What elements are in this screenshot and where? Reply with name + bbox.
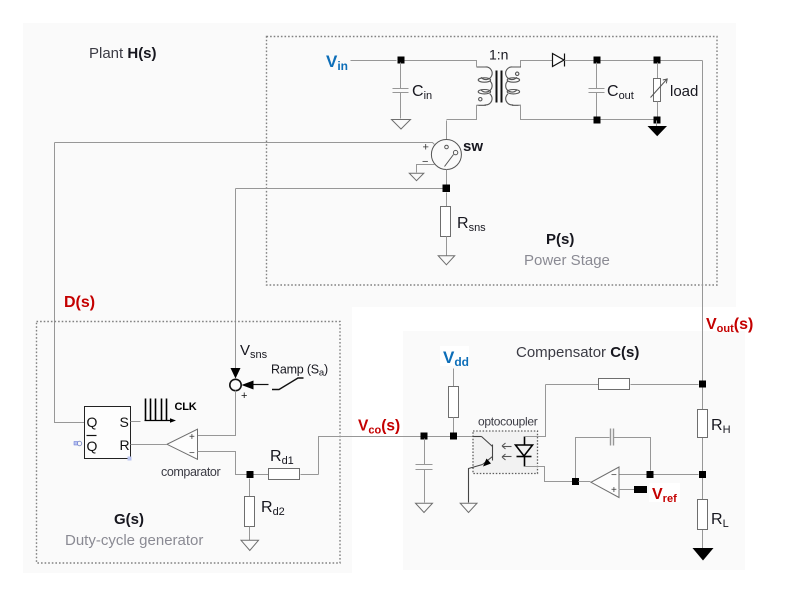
node divider mid junction bbox=[699, 471, 706, 478]
wire divider node to op-amp minus bbox=[619, 474, 699, 476]
wire output top rail to Vout line bbox=[702, 61, 704, 285]
handle artifact bottom right of flip-flop bbox=[128, 457, 132, 461]
ground under load (filled) bbox=[648, 121, 668, 137]
wire primary bottom lead bbox=[447, 106, 479, 120]
node load top bbox=[654, 57, 661, 64]
wire op-amp output to node bbox=[579, 481, 591, 483]
label background Vdd bbox=[440, 346, 469, 366]
transformer secondary winding bbox=[506, 67, 521, 105]
op-amp U3 bbox=[591, 467, 619, 498]
resistor R_d1 bbox=[254, 469, 319, 480]
svg-text:+: + bbox=[423, 142, 429, 154]
wire Vsns tap to left bbox=[236, 188, 443, 190]
svg-text:Duty-cycle generator: Duty-cycle generator bbox=[65, 532, 203, 549]
arrow into summing node bbox=[231, 368, 241, 379]
svg-text:S: S bbox=[120, 414, 129, 430]
diode D1 bbox=[553, 54, 565, 67]
wire S input bbox=[131, 421, 141, 423]
wire summing node to comparator plus bbox=[198, 391, 236, 436]
node Vco cap junction bbox=[421, 433, 428, 440]
resistor R_H bbox=[698, 388, 708, 471]
label background Vref bbox=[649, 483, 680, 502]
bubble on Qbar bbox=[77, 441, 81, 445]
LED of optocoupler bbox=[516, 437, 533, 467]
ground under R_L (filled) bbox=[693, 548, 714, 561]
wire Rd1 up to Vco rail bbox=[319, 437, 473, 475]
phototransistor of optocoupler bbox=[469, 437, 493, 503]
capacitor at Vco bbox=[416, 439, 433, 503]
svg-text:optocoupler: optocoupler bbox=[478, 415, 538, 429]
transformer primary winding bbox=[477, 67, 493, 105]
compensator container background bbox=[403, 331, 745, 570]
node sense junction bbox=[443, 185, 451, 193]
wire node to transformer bbox=[405, 61, 477, 67]
summing node circle bbox=[230, 379, 241, 390]
svg-text:P(s): P(s) bbox=[546, 231, 574, 248]
feedback capacitor bbox=[576, 429, 651, 481]
resistor R_sns bbox=[441, 193, 451, 256]
light arrows of optocoupler bbox=[502, 443, 512, 460]
load arrow bbox=[651, 79, 668, 98]
optocoupler box bbox=[473, 431, 538, 474]
svg-text:CLK: CLK bbox=[175, 401, 197, 413]
wire Q output up the left side bbox=[55, 143, 85, 423]
node Cout top bbox=[594, 57, 601, 64]
svg-text:Q: Q bbox=[87, 414, 98, 430]
wire op-amp plus to Vref bbox=[619, 489, 635, 491]
svg-text:load: load bbox=[670, 83, 698, 100]
node Vout feedback junction bbox=[699, 381, 706, 388]
clock pulse train CLK bbox=[146, 399, 167, 421]
wire Vout vertical bbox=[702, 285, 704, 549]
comparator U2 bbox=[167, 429, 198, 459]
clock baseline with arrow bbox=[145, 418, 177, 423]
capacitor C_in bbox=[393, 63, 409, 119]
svg-text:Q: Q bbox=[87, 438, 98, 454]
svg-text:+: + bbox=[189, 432, 195, 443]
svg-text:+: + bbox=[241, 390, 247, 402]
svg-text:sw: sw bbox=[463, 138, 483, 155]
power stage dotted box P(s) bbox=[267, 37, 718, 286]
svg-text:−: − bbox=[189, 448, 195, 459]
svg-text:Power Stage: Power Stage bbox=[524, 252, 610, 269]
node Cout bottom bbox=[594, 117, 601, 124]
handle artifact left of bubble bbox=[74, 442, 78, 446]
svg-text:R: R bbox=[120, 437, 130, 453]
wire comparator output to R input bbox=[131, 444, 167, 446]
wire secondary top to diode bbox=[521, 61, 553, 67]
plant container background left column bbox=[23, 307, 352, 573]
phototransistor emitter arrow bbox=[483, 459, 491, 467]
ground under optocoupler bbox=[460, 503, 477, 512]
ground under R_d2 bbox=[241, 540, 259, 550]
transformer core bbox=[496, 71, 498, 103]
wire primary bottom to SW bbox=[446, 121, 448, 140]
load resistor bbox=[654, 63, 661, 117]
plant container background top bbox=[23, 23, 736, 307]
node load bottom bbox=[654, 117, 661, 124]
capacitor C_out bbox=[589, 63, 605, 117]
resistor R_L bbox=[698, 479, 708, 549]
wire comparator minus to divider node bbox=[198, 452, 247, 475]
ramp symbol bbox=[272, 378, 304, 390]
ramp input arrow bbox=[242, 381, 269, 390]
svg-text:comparator: comparator bbox=[161, 465, 220, 479]
duty-cycle generator dotted box G(s) bbox=[37, 322, 341, 564]
ground at SW bbox=[409, 173, 424, 181]
node op-amp output junction bbox=[572, 478, 579, 485]
node divider junction bbox=[247, 471, 254, 478]
svg-text:G(s): G(s) bbox=[114, 511, 144, 528]
wire control input to SW plus bbox=[55, 143, 435, 145]
label background Vco(s) bbox=[354, 413, 399, 433]
wire bottom rail to load bbox=[597, 119, 657, 121]
wire diode to output node bbox=[565, 60, 703, 62]
svg-text:Compensator C(s): Compensator C(s) bbox=[516, 344, 639, 361]
node Vin junction bbox=[398, 57, 405, 64]
feedback resistor bbox=[546, 379, 699, 390]
svg-text:−: − bbox=[611, 470, 617, 481]
svg-text:+: + bbox=[611, 485, 617, 496]
wire SW minus to ground bbox=[417, 165, 435, 173]
Vref source block bbox=[634, 486, 647, 493]
node Vdd junction bbox=[450, 433, 457, 440]
wire LED bottom to op-amp output bbox=[525, 467, 573, 482]
wire SW bottom to sense node bbox=[446, 170, 448, 189]
ground under R_sns bbox=[438, 256, 455, 265]
wire Vsns down to summing node bbox=[235, 189, 237, 369]
node op-amp minus junction bbox=[647, 471, 654, 478]
svg-text:−: − bbox=[422, 156, 428, 168]
overline of Qbar bbox=[87, 435, 97, 437]
svg-text:D(s): D(s) bbox=[64, 294, 95, 311]
flip-flop U1 bbox=[85, 407, 131, 459]
wire Vin to node bbox=[351, 60, 397, 62]
wire LED top to feedback resistor bbox=[525, 385, 546, 437]
resistor R_d2 bbox=[245, 479, 255, 541]
svg-text:1:n: 1:n bbox=[489, 47, 508, 63]
switch SW circle bbox=[431, 140, 461, 170]
svg-text:Plant H(s): Plant H(s) bbox=[89, 45, 157, 62]
wire secondary bottom lead to output rail bbox=[519, 106, 597, 120]
ground under Vco cap bbox=[416, 503, 433, 512]
ground under C_in bbox=[392, 120, 411, 130]
resistor Vdd pull-up bbox=[449, 369, 459, 433]
